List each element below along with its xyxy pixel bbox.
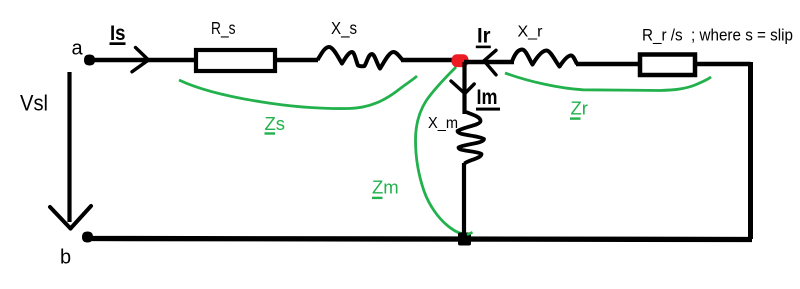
annotation curve Zm [416,67,464,234]
svg-text:X_s: X_s [331,18,357,39]
wire R_r to right corner [695,62,751,67]
wire node to X_r [464,60,514,65]
svg-text:b: b [60,247,71,269]
svg-text:Is: Is [110,22,126,45]
wire a to R_s [92,58,196,63]
svg-text:Zr: Zr [571,98,588,119]
wire R_s to X_s [275,58,318,63]
current arrow Is [132,48,149,72]
svg-text:R_r /s ; where s = slip: R_r /s ; where s = slip [642,26,793,45]
inductor X_m [458,112,485,164]
label Ir [476,25,491,48]
wire X_r to R_r [576,62,640,67]
wire middle branch upper [462,62,466,114]
svg-text:a: a [72,38,84,60]
current arrow Im [451,81,474,94]
label Zr [570,98,588,120]
node a dot [84,55,95,66]
label Zm [372,177,399,199]
junction node (red) [452,54,469,67]
svg-text:Zm: Zm [372,177,399,198]
current arrow Ir [484,50,496,75]
inductor X_s [318,47,403,69]
svg-text:X_r: X_r [518,23,544,40]
label Is [110,22,126,45]
wire X_s to node [401,58,458,63]
resistor R_r/s [640,55,695,76]
junction node bottom [458,233,471,246]
node b dot [82,232,93,243]
svg-text:Zs: Zs [265,113,286,134]
svg-text:Im: Im [477,86,498,109]
svg-text:X_m: X_m [428,115,458,132]
annotation curve Zm end tick [467,232,473,235]
annotation curve Zs [179,76,417,109]
resistor R_s [196,50,275,71]
wire middle branch lower [462,163,466,239]
source line Vsl [67,72,71,222]
label Zs [265,113,286,135]
inductor X_r [512,50,577,67]
label Im [476,86,500,111]
svg-text:Ir: Ir [477,25,491,48]
wire right vertical [748,62,753,239]
arrowhead Vsl [50,206,91,229]
wire bottom [92,239,752,240]
annotation curve Zr [505,73,711,91]
svg-text:Vsl: Vsl [20,91,48,116]
svg-text:R_s: R_s [211,18,236,39]
